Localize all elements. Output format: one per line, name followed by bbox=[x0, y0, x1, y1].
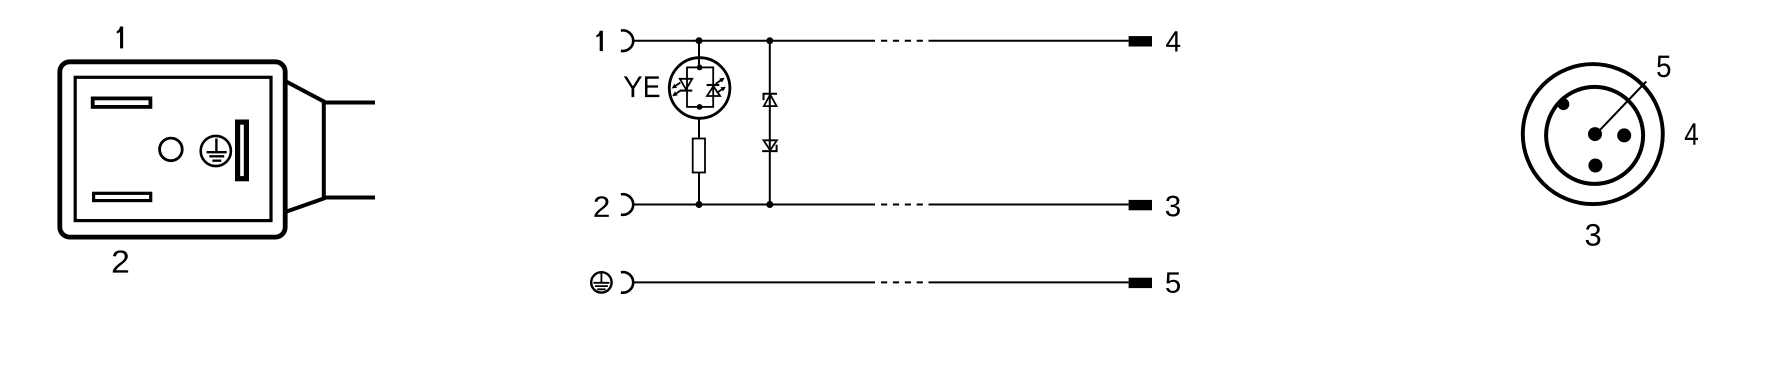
LED internal top node bbox=[697, 65, 703, 71]
zener diode upper bbox=[764, 94, 778, 106]
wire LED to resistor bbox=[698, 120, 700, 138]
core label 1 bbox=[596, 31, 602, 51]
LED indicator circle bbox=[669, 58, 730, 119]
pin 5 pointer line bbox=[1599, 82, 1646, 131]
M12 keyway dot bbox=[1558, 98, 1570, 110]
wire row 1 right segment bbox=[929, 40, 1129, 42]
pin label 4 (M12) bbox=[1685, 123, 1698, 144]
core label 2 bbox=[594, 196, 608, 217]
socket contact arc row 1 bbox=[621, 30, 633, 51]
wire row 3 dashed segment bbox=[881, 281, 929, 283]
cable lead top bbox=[324, 101, 375, 105]
junction row2 wire2 bbox=[766, 201, 773, 208]
wire row 3 right segment bbox=[929, 281, 1129, 283]
wire row1 to LED circle bbox=[698, 41, 700, 68]
pin label 5 (M12) bbox=[1657, 56, 1670, 78]
M12 pin 5 (center) bbox=[1588, 127, 1602, 141]
LED left diode (cathode down) bbox=[680, 79, 692, 91]
LED internal bridge rectangle bbox=[687, 67, 713, 107]
wire row 2 dashed segment bbox=[881, 204, 929, 206]
socket contact arc row 2 bbox=[621, 194, 633, 215]
contact label 4 bbox=[1166, 31, 1180, 51]
contact label 3 bbox=[1166, 196, 1180, 217]
earth contact symbol bbox=[201, 136, 231, 166]
M12 connector inner circle bbox=[1546, 87, 1643, 184]
junction row1 wire1 bbox=[696, 37, 703, 44]
socket contact arc row 3 bbox=[621, 272, 633, 293]
wire row 2 right segment bbox=[929, 204, 1129, 206]
LED left emission arrows bbox=[672, 83, 681, 97]
contact label 5 bbox=[1166, 272, 1180, 293]
cable lead bottom bbox=[324, 196, 375, 200]
M12 pin 4 (right) bbox=[1617, 128, 1631, 142]
terminal 5 bbox=[1129, 278, 1152, 288]
wire row 3 left segment bbox=[633, 281, 875, 283]
LED right diode (cathode up) bbox=[707, 85, 721, 96]
suppressor wire (row1 to row2) bbox=[769, 41, 771, 205]
pin label 1 (valve connector) bbox=[117, 26, 123, 48]
terminal 3 bbox=[1129, 200, 1152, 210]
junction row1 wire2 bbox=[766, 37, 773, 44]
connector neck (trapezoid) bbox=[285, 81, 324, 212]
zener diode lower bbox=[762, 140, 777, 151]
earth contact bar bbox=[238, 122, 247, 179]
contact slot 1 bbox=[93, 98, 151, 107]
valve connector body outline bbox=[60, 62, 285, 237]
wire row 1 dashed segment bbox=[881, 40, 929, 42]
M12 connector outer circle bbox=[1523, 64, 1663, 204]
LED internal bottom node bbox=[697, 104, 703, 110]
resistor bbox=[693, 139, 705, 173]
protective earth symbol row 3 bbox=[591, 272, 611, 292]
wire row 2 left segment bbox=[633, 204, 875, 206]
pin label 2 (valve connector) bbox=[113, 250, 128, 272]
junction row2 wire1 bbox=[696, 201, 703, 208]
LED label YE bbox=[624, 76, 642, 97]
terminal 4 bbox=[1129, 36, 1152, 46]
cable entry hole bbox=[160, 138, 183, 161]
pin label 3 (M12) bbox=[1586, 224, 1601, 246]
LED right emission arrows bbox=[716, 78, 726, 93]
contact slot 2 bbox=[94, 193, 151, 200]
wire row 1 left segment bbox=[633, 40, 875, 42]
wire resistor to row 2 bbox=[698, 173, 700, 204]
M12 pin 3 (bottom) bbox=[1588, 159, 1602, 173]
valve connector inner face bbox=[75, 77, 271, 220]
